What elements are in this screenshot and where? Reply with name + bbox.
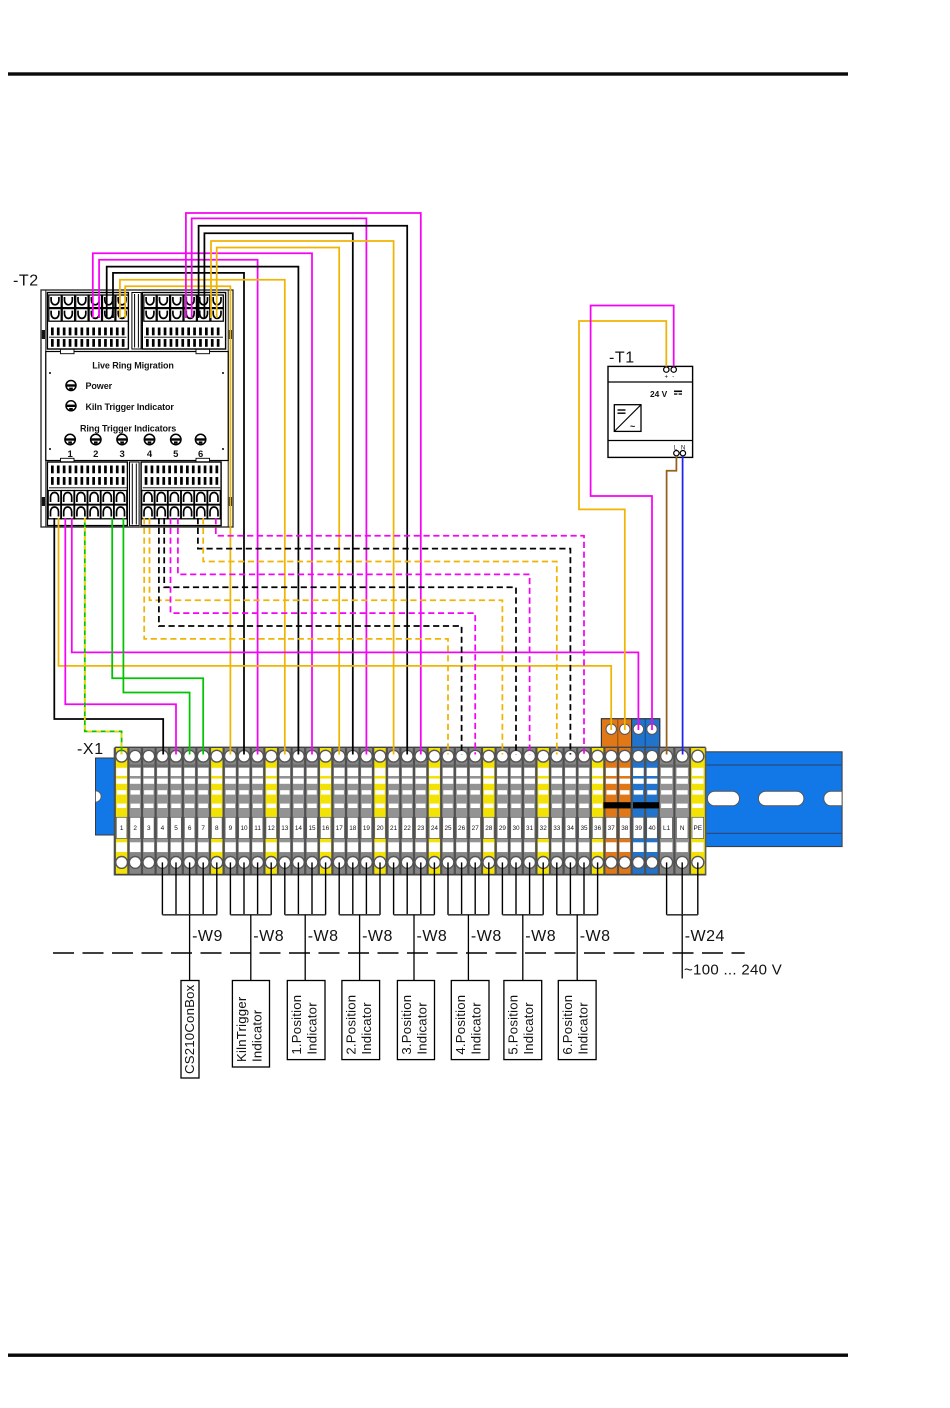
X1 terminal 25	[440, 748, 454, 876]
svg-text:Indicator: Indicator	[521, 1002, 536, 1055]
wire T2 to terminal 37 (orange)	[59, 518, 612, 730]
svg-text:39: 39	[635, 825, 643, 832]
T2 top center divider	[132, 293, 141, 350]
dashed wire T2 to X1:25	[144, 518, 448, 755]
svg-text:2: 2	[133, 825, 137, 832]
svg-text:Indicator: Indicator	[305, 1002, 320, 1055]
svg-text:Power: Power	[86, 381, 113, 391]
cable -W8 bracket	[230, 914, 271, 916]
T2 body panel	[46, 352, 228, 461]
X1 terminal 6	[182, 748, 196, 876]
jumper bar terminals 39-40	[633, 802, 659, 808]
T1 + output terminal	[664, 367, 669, 372]
T1 - output terminal	[671, 367, 676, 372]
svg-text:PE: PE	[694, 825, 703, 832]
wire T2 to terminal 39 (magenta)	[72, 518, 639, 730]
svg-text:24: 24	[431, 825, 439, 832]
wire T1 - to terminal 40 (magenta)	[591, 306, 674, 731]
svg-text:~100 ... 240 V: ~100 ... 240 V	[684, 962, 782, 979]
svg-text:10: 10	[240, 825, 248, 832]
X1 terminal 15	[304, 748, 318, 876]
X1 terminal 38	[617, 748, 631, 876]
svg-text:+: +	[665, 375, 669, 381]
svg-text:15: 15	[308, 825, 316, 832]
svg-text:7: 7	[201, 825, 205, 832]
svg-text:6.Position: 6.Position	[560, 995, 575, 1055]
X1 terminal 32	[535, 748, 549, 876]
svg-text:2.Position: 2.Position	[344, 995, 359, 1055]
svg-text:Kiln Trigger Indicator: Kiln Trigger Indicator	[86, 402, 175, 412]
X1 terminal 19	[359, 748, 373, 876]
destination box 3.Position	[397, 981, 434, 1060]
X1 terminal 35	[576, 748, 590, 876]
X1 terminal 40	[644, 748, 658, 876]
DIN rail slot 3	[824, 791, 842, 806]
X1 terminal 36	[590, 748, 604, 876]
DIN rail left stub	[96, 758, 117, 835]
page top border line	[8, 72, 848, 75]
cable -W8 bracket	[394, 914, 435, 916]
dashed wire T2 to X1:26	[159, 518, 462, 755]
X1 terminal 21	[386, 748, 400, 876]
X1 terminal N	[673, 748, 688, 876]
X1 terminal 11	[250, 748, 264, 876]
destination box 6.Position	[558, 981, 596, 1060]
svg-text:27: 27	[472, 825, 480, 832]
T2 bottom center divider	[130, 462, 140, 526]
X1 yellow terminal 32 background	[536, 748, 550, 876]
svg-text:33: 33	[553, 825, 561, 832]
wire T2 left W8 wire to X1:14	[107, 267, 299, 755]
svg-text:18: 18	[349, 825, 357, 832]
page bottom border line	[8, 1354, 848, 1357]
svg-text:23: 23	[417, 825, 425, 832]
raised orange terminal block (cols 37-38)	[601, 719, 631, 749]
cable -W8 bracket	[557, 914, 598, 916]
X1 terminal 7	[195, 748, 209, 876]
T2 Power LED	[66, 381, 76, 391]
wire T2 right wire to X1:22	[199, 226, 408, 755]
svg-text:KilnTrigger: KilnTrigger	[234, 996, 249, 1062]
X1 terminal 10	[236, 748, 250, 876]
X1 terminal 17	[331, 748, 345, 876]
X1 terminal 24	[427, 748, 441, 876]
svg-text:-W8: -W8	[253, 928, 284, 945]
wire T2 left W8 wire to X1:11	[99, 260, 258, 755]
wire T2 right wire to X1:19	[192, 218, 367, 754]
X1 terminal 20	[372, 748, 386, 876]
DIN rail slot 2	[758, 791, 804, 806]
svg-text:-W8: -W8	[471, 928, 502, 945]
svg-text:6: 6	[198, 449, 203, 460]
svg-text:Indicator: Indicator	[469, 1002, 484, 1055]
svg-text:1.Position: 1.Position	[289, 995, 304, 1055]
svg-text:3: 3	[147, 825, 151, 832]
X1 terminal 31	[522, 748, 536, 876]
svg-text:22: 22	[404, 825, 412, 832]
cable -W8 bracket	[285, 914, 326, 916]
svg-text:-X1: -X1	[77, 741, 104, 758]
destination box 1.Position	[287, 981, 325, 1060]
X1 terminal 3	[141, 748, 155, 876]
X1 terminal 28	[481, 748, 495, 876]
X1 terminal 27	[467, 748, 481, 876]
dashed wire T2 to X1:33	[203, 518, 557, 755]
svg-text:-W8: -W8	[362, 928, 393, 945]
svg-text:4: 4	[161, 825, 165, 832]
svg-text:2: 2	[93, 449, 98, 460]
X1 terminal L1	[658, 748, 673, 876]
svg-text:24 V: 24 V	[650, 389, 668, 399]
wire T2 right wire to X1:18	[204, 233, 352, 754]
svg-text:-W9: -W9	[192, 928, 223, 945]
T2 ring trigger LEDs 1-6	[65, 434, 75, 444]
svg-text:N: N	[680, 825, 685, 832]
svg-text:38: 38	[621, 825, 629, 832]
field boundary dashed line	[53, 952, 745, 954]
dashed wire T2 to X1:31	[178, 518, 530, 755]
X1 terminal 22	[399, 748, 413, 876]
svg-text:Indicator: Indicator	[250, 1009, 265, 1062]
svg-text:19: 19	[363, 825, 371, 832]
cable -W8 bracket	[502, 914, 543, 916]
wire T2 right wire to X1:23	[186, 213, 421, 755]
wire T2 to X1:4 (black)	[54, 518, 163, 755]
dashed wire T2 to X1:29	[150, 518, 503, 755]
wire T2 right wire to X1:21	[211, 241, 394, 755]
destination box KilnTrigger	[232, 981, 269, 1068]
X1 terminal 12	[263, 748, 277, 876]
cable -W8 bracket	[339, 914, 380, 916]
svg-text:8: 8	[215, 825, 219, 832]
svg-text:21: 21	[390, 825, 398, 832]
power supply T1 body	[608, 366, 693, 457]
svg-text:14: 14	[295, 825, 303, 832]
X1 terminal number labels	[120, 825, 702, 832]
destination box 2.Position	[342, 981, 380, 1060]
X1 terminal 14	[291, 748, 305, 876]
cable -W9 bracket	[162, 914, 216, 916]
svg-text:-W8: -W8	[525, 928, 556, 945]
T1 L input terminal	[674, 451, 679, 456]
X1 terminal 18	[345, 748, 359, 876]
cable -W24 bracket	[667, 914, 698, 916]
X1 upper divider band	[129, 764, 689, 767]
svg-text:4: 4	[147, 449, 153, 460]
X1 terminal 5	[168, 748, 182, 876]
dashed wire T2 to X1:35	[216, 518, 584, 755]
wire T1 N to X1:N (blue)	[682, 456, 684, 755]
X1 orange terminal 37 background	[604, 748, 618, 876]
svg-text:11: 11	[254, 825, 261, 832]
svg-text:Indicator: Indicator	[576, 1002, 591, 1055]
svg-text:26: 26	[458, 825, 466, 832]
svg-text:Indicator: Indicator	[359, 1002, 374, 1055]
X1 yellow terminal 28 background	[482, 748, 496, 876]
raised blue terminal block (cols 39-40)	[618, 719, 660, 749]
X1 terminal 34	[563, 748, 577, 876]
wire T1 L to X1:L1 (brown)	[667, 456, 677, 755]
svg-text:N: N	[681, 446, 685, 452]
svg-text:32: 32	[540, 825, 548, 832]
cable stubs from X1 bottom terminals	[162, 862, 697, 914]
X1 terminal 30	[508, 748, 522, 876]
svg-text:CS210ConBox: CS210ConBox	[182, 984, 197, 1074]
svg-text:Live Ring Migration: Live Ring Migration	[92, 361, 174, 371]
X1 terminal 37	[603, 748, 617, 876]
X1 terminal 1	[114, 748, 128, 876]
DIN rail slot 1	[707, 791, 739, 806]
T1 AC/DC converter symbol	[614, 405, 641, 432]
T1 N input terminal	[680, 451, 685, 456]
svg-text:29: 29	[499, 825, 507, 832]
svg-text:5.Position: 5.Position	[506, 995, 521, 1055]
X1 yellow terminal 20 background	[373, 748, 387, 876]
dashed wire T2 to X1:34	[198, 518, 571, 755]
svg-text:9: 9	[229, 825, 233, 832]
T2 top terminal block left	[47, 293, 128, 350]
svg-text:4.Position: 4.Position	[453, 995, 468, 1055]
svg-text:-W8: -W8	[580, 928, 611, 945]
X1 orange terminal 38 background	[618, 748, 632, 876]
X1 yellow terminal 24 background	[428, 748, 442, 876]
T2 top terminal block right	[142, 293, 225, 350]
wire T2 left W8 wire to X1:10	[113, 273, 244, 755]
T2 bottom terminal block right	[141, 462, 221, 526]
svg-text:-W24: -W24	[685, 928, 725, 945]
wire T2 left W8 wire to X1:15	[93, 253, 312, 754]
X1 yellow terminal 16 background	[319, 748, 333, 876]
svg-text:36: 36	[594, 825, 602, 832]
X1 terminal 39	[631, 748, 645, 876]
T2 Kiln Trigger LED	[66, 401, 76, 411]
X1 terminal 23	[413, 748, 427, 876]
X1 terminal 13	[277, 748, 291, 876]
svg-text:~: ~	[630, 422, 635, 432]
svg-text:17: 17	[336, 825, 344, 832]
X1 terminal 33	[549, 748, 563, 876]
svg-text:12: 12	[268, 825, 276, 832]
T2 bottom terminal block left	[47, 462, 127, 526]
jumper bar terminals 37-38	[603, 802, 630, 808]
svg-text:16: 16	[322, 825, 330, 832]
svg-text:13: 13	[281, 825, 289, 832]
X1 terminal 26	[454, 748, 468, 876]
relay module T2 outer frame	[41, 290, 233, 527]
dashed wire T2 to X1:27	[171, 518, 476, 755]
svg-text:20: 20	[376, 825, 384, 832]
dashed wire T2 to X1:30	[164, 518, 516, 755]
svg-text:25: 25	[444, 825, 452, 832]
X1 blue terminal 40 background	[645, 748, 659, 876]
X1 terminal 8	[209, 748, 223, 876]
svg-text:-W8: -W8	[417, 928, 448, 945]
svg-text:-: -	[672, 375, 674, 381]
X1 terminal 16	[318, 748, 332, 876]
X1 yellow terminal 36 background	[591, 748, 605, 876]
X1 terminal 2	[127, 748, 141, 876]
X1 yellow terminal 12 background	[264, 748, 278, 876]
X1 terminal 4	[155, 748, 169, 876]
destination box 4.Position	[451, 981, 489, 1060]
svg-text:37: 37	[608, 825, 616, 832]
X1 terminal 29	[495, 748, 509, 876]
destination box CS210ConBox	[181, 981, 199, 1079]
svg-text:5: 5	[173, 449, 179, 460]
svg-text:34: 34	[567, 825, 575, 832]
cable -W8 bracket	[448, 914, 489, 916]
svg-text:5: 5	[174, 825, 178, 832]
svg-text:Indicator: Indicator	[415, 1002, 430, 1055]
wire T2 left W8 wire to X1:9	[125, 286, 230, 754]
X1 yellow terminal 8 background	[210, 748, 224, 876]
svg-text:-W8: -W8	[308, 928, 339, 945]
svg-text:1: 1	[67, 449, 73, 460]
wire T2 left W8 wire to X1:13	[120, 280, 285, 755]
destination box 5.Position	[504, 981, 542, 1060]
svg-text:Ring Trigger Indicators: Ring Trigger Indicators	[80, 423, 176, 433]
wire T2 to X1:1 (green/yellow PE)	[85, 518, 122, 755]
svg-text:-T2: -T2	[13, 273, 39, 290]
svg-text:6: 6	[188, 825, 192, 832]
wire T2 to X1:5 (magenta)	[65, 518, 176, 755]
X1 blue terminal 39 background	[632, 748, 646, 876]
wire T2 to X1:6 (green)	[123, 518, 189, 755]
svg-text:40: 40	[648, 825, 656, 832]
DIN rail right section	[706, 752, 843, 847]
wire T1 + to terminal 38 (orange)	[579, 321, 666, 730]
X1 yellow terminal 1 background	[115, 748, 129, 876]
svg-text:30: 30	[512, 825, 520, 832]
terminal strip X1 body	[115, 748, 706, 876]
X1 PE terminal background	[690, 748, 706, 876]
wire T2 to X1:7 (green)	[112, 518, 203, 755]
svg-text:31: 31	[526, 825, 534, 832]
svg-text:-T1: -T1	[609, 350, 635, 367]
svg-text:3: 3	[119, 449, 124, 460]
wire T2 right wire to X1:17	[217, 248, 340, 755]
X1 terminal 9	[223, 748, 237, 876]
svg-text:35: 35	[580, 825, 588, 832]
svg-text:1: 1	[120, 825, 124, 832]
svg-text:3.Position: 3.Position	[399, 995, 414, 1055]
svg-text:28: 28	[485, 825, 493, 832]
svg-text:L1: L1	[663, 825, 671, 832]
X1 terminal PE	[689, 748, 704, 876]
